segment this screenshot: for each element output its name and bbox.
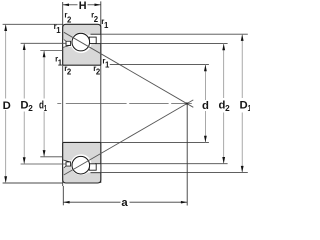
bearing upper section [63, 24, 101, 65]
svg-text:D1: D1 [240, 99, 251, 112]
outer ring shoulder line right lower (D1 level) [91, 172, 101, 174]
outer/inner ring block lower [63, 142, 101, 183]
cage bar left upper [66, 41, 71, 45]
extension: D2 bottom [21, 163, 67, 165]
node: apex of contact lines [186, 102, 188, 104]
outer ring boundary slant left lower [64, 164, 68, 167]
svg-text:a: a [121, 197, 128, 209]
ball upper [72, 33, 90, 51]
svg-text:H: H [79, 0, 87, 12]
pocket white right lower [88, 164, 100, 172]
svg-text:r2: r2 [93, 64, 101, 77]
extension: D1 top [101, 33, 248, 35]
pocket white left upper [63, 40, 71, 47]
outer/inner ring block upper [63, 24, 101, 65]
svg-text:r2: r2 [64, 64, 72, 77]
svg-text:r2: r2 [64, 11, 72, 25]
extension: d1 top [40, 50, 62, 52]
cage bar right lower [89, 164, 96, 170]
dimension D [5, 24, 7, 183]
dimension d1 [43, 51, 45, 157]
extension: D1 bottom [101, 172, 248, 174]
extension: d2 top [101, 43, 228, 45]
dimension d [204, 65, 206, 143]
svg-text:r1: r1 [54, 22, 62, 35]
svg-text:d2: d2 [219, 99, 231, 112]
dimension D2 [23, 43, 25, 164]
svg-text:D2: D2 [20, 99, 33, 112]
contact line upper ball to apex [64, 32, 193, 107]
pocket white right upper [88, 35, 100, 43]
svg-text:D: D [3, 100, 11, 112]
extension: D bottom [3, 182, 63, 184]
extension: d2 bottom [101, 163, 228, 165]
cage bar right upper [89, 37, 96, 43]
svg-text:d1: d1 [39, 100, 47, 113]
centerline axis (chain line segments) [57, 103, 192, 105]
dimension H top [63, 4, 101, 6]
inner ring shoulder line right lower (d2 level) [95, 163, 101, 165]
svg-text:r1: r1 [55, 55, 63, 68]
wire: left face extension line full height [62, 2, 64, 186]
inner ring boundary slant left upper [63, 45, 70, 47]
svg-text:r2: r2 [91, 11, 99, 25]
extension: D top [3, 23, 63, 25]
outer ring boundary slant left upper [64, 40, 68, 43]
outer ring shoulder line right upper (D1 level) [91, 33, 101, 35]
dimension a bottom [63, 201, 187, 203]
pocket white left lower [63, 160, 71, 167]
raceway gap upper [71, 32, 92, 53]
extension: D2 top [21, 42, 67, 44]
cage bar left lower [66, 162, 71, 166]
contact line lower ball to apex [64, 100, 193, 175]
dimension d2 [223, 44, 225, 164]
svg-text:r1: r1 [101, 17, 109, 30]
extension: apex vertical for a [186, 104, 188, 205]
inner ring boundary slant left lower [63, 160, 70, 162]
wire: right face extension line [100, 1, 102, 183]
extension: d bottom [101, 141, 209, 143]
extension: d top (after r1 label) [110, 64, 209, 66]
bearing lower section (mirror) [63, 142, 101, 183]
inner ring shoulder line right upper (d2 level) [95, 43, 101, 45]
raceway gap lower [71, 154, 92, 175]
ball lower [72, 156, 90, 174]
svg-text:d: d [202, 100, 209, 112]
extension: d1 bottom [40, 156, 62, 158]
dimension D1 [241, 34, 243, 172]
wire: a-dim left extension [62, 186, 64, 205]
